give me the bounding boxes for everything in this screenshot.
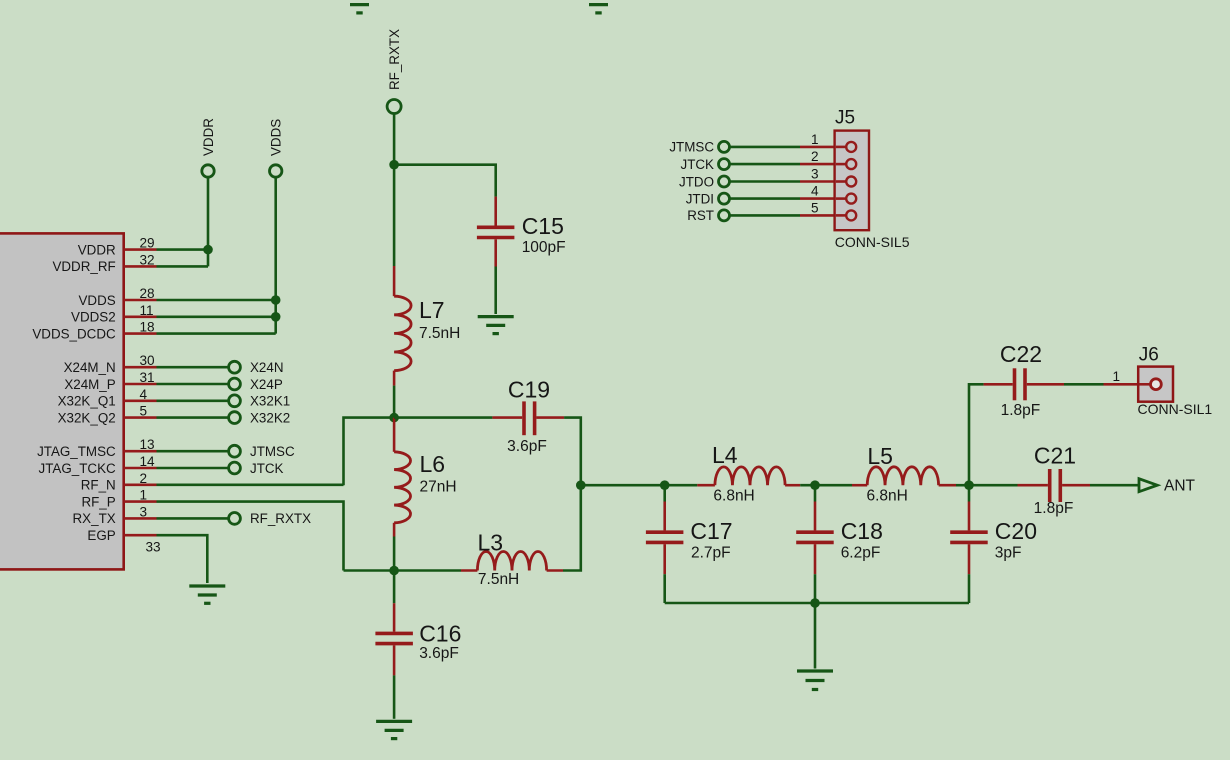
svg-text:3.6pF: 3.6pF (419, 645, 459, 662)
pin X24M_N 30 (64, 353, 157, 375)
svg-text:29: 29 (140, 236, 155, 251)
svg-text:5: 5 (811, 200, 819, 215)
svg-text:VDDS2: VDDS2 (71, 310, 116, 325)
svg-text:C21: C21 (1034, 443, 1076, 469)
svg-text:RST: RST (687, 208, 714, 223)
junction VDDS pin11 (271, 312, 281, 322)
wire EGP to ground (157, 535, 208, 583)
wire filter ground rail (665, 602, 969, 605)
wire C15 to ground (494, 267, 497, 315)
ground (top right, partial) (589, 5, 608, 13)
svg-text:RF_RXTX: RF_RXTX (250, 511, 311, 526)
svg-text:X32K_Q2: X32K_Q2 (58, 410, 116, 425)
wire bottom rail left (344, 569, 395, 572)
pin JTAG_TMSC 13 (37, 437, 156, 459)
wire RF_N from pin to rail (157, 483, 344, 486)
svg-text:X32K2: X32K2 (250, 410, 290, 425)
ground filter (797, 671, 833, 690)
connector J6 body (1138, 367, 1173, 402)
svg-text:JTCK: JTCK (250, 461, 284, 476)
pin VDDS_DCDC 18 (32, 320, 156, 342)
wire L3 to right vertical (563, 485, 581, 570)
svg-text:L3: L3 (478, 530, 504, 556)
wire node A to C19 (394, 416, 492, 419)
wire L7 to node A (393, 386, 396, 418)
svg-text:X24M_P: X24M_P (64, 377, 115, 392)
terminal JTCK (157, 461, 284, 476)
connector J5 pad circles (846, 142, 856, 221)
svg-text:11: 11 (140, 303, 154, 318)
svg-text:JTMSC: JTMSC (669, 140, 714, 155)
svg-text:J5: J5 (835, 108, 855, 129)
svg-text:L7: L7 (419, 297, 445, 323)
svg-text:3: 3 (811, 167, 819, 182)
capacitor C15 (477, 197, 515, 267)
svg-text:JTMSC: JTMSC (250, 444, 295, 459)
svg-text:X24P: X24P (250, 377, 283, 392)
junction VDDS pin28 (271, 295, 281, 305)
svg-text:C20: C20 (995, 518, 1037, 544)
svg-text:3pF: 3pF (995, 545, 1022, 562)
svg-text:L5: L5 (867, 443, 893, 469)
pin X32K_Q1 4 (58, 387, 157, 409)
pin numbers J5 (811, 132, 819, 216)
svg-text:VDDR_RF: VDDR_RF (52, 259, 115, 274)
svg-text:X32K_Q1: X32K_Q1 (58, 394, 116, 409)
svg-text:3: 3 (140, 504, 148, 519)
svg-text:RF_N: RF_N (81, 478, 116, 493)
connector J6 pad circle (1151, 379, 1162, 390)
svg-text:X32K1: X32K1 (250, 394, 290, 409)
svg-text:14: 14 (140, 454, 156, 469)
junction VDDR (203, 245, 213, 255)
inductor L6 (394, 418, 410, 537)
wire node to C15 (394, 165, 496, 197)
pin VDDR 29 (78, 236, 157, 258)
svg-text:C22: C22 (1000, 341, 1042, 367)
ground EGP (189, 586, 225, 603)
wire VDDS vertical (274, 178, 277, 334)
connector J6 pin 1 (1104, 383, 1151, 386)
terminal RF_RXTX (from RX_TX pin) (157, 511, 312, 526)
svg-text:6.2pF: 6.2pF (841, 545, 881, 562)
wire node C to filter (581, 484, 698, 487)
capacitor C21 (969, 469, 1090, 502)
wire pin29 to VDDR net (157, 248, 209, 251)
svg-text:7.5nH: 7.5nH (478, 571, 519, 588)
wire VDDR vertical (207, 178, 210, 267)
pin JTAG_TCKC 14 (39, 454, 157, 476)
svg-text:EGP: EGP (87, 528, 115, 543)
terminal JTMSC (J5) (730, 146, 800, 149)
wire C16 from node B (393, 571, 396, 604)
svg-text:C16: C16 (419, 621, 461, 647)
wire node B to L3 (394, 569, 461, 572)
svg-text:L6: L6 (420, 451, 446, 477)
wire L4 to C18 node (800, 484, 852, 487)
svg-text:100pF: 100pF (522, 239, 566, 256)
svg-text:7.5nH: 7.5nH (419, 325, 460, 342)
terminal RST (J5) (730, 214, 800, 217)
IC block (cut off at left edge) (0, 233, 124, 569)
wire RF_P from pin to rail (157, 502, 344, 571)
wire C19 to right vertical (564, 418, 581, 486)
svg-text:3.6pF: 3.6pF (507, 438, 547, 455)
svg-text:JTDI: JTDI (686, 191, 714, 206)
svg-text:27nH: 27nH (420, 479, 457, 496)
svg-text:2: 2 (811, 149, 819, 164)
svg-text:4: 4 (811, 184, 819, 199)
svg-text:VDDR: VDDR (78, 242, 116, 257)
wire C16 to ground (393, 675, 396, 718)
svg-text:JTCK: JTCK (681, 157, 715, 172)
connector J5 pin stubs (800, 147, 846, 216)
wire RF node down to L7 (393, 165, 396, 266)
junction C20 node (964, 480, 974, 490)
svg-text:1: 1 (1112, 369, 1120, 384)
terminal X32K1 (157, 394, 291, 409)
inductor L4 (697, 467, 800, 485)
svg-text:28: 28 (140, 286, 155, 301)
pin X32K_Q2 5 (58, 404, 157, 426)
pin X24M_P 31 (64, 370, 156, 392)
svg-text:1: 1 (140, 488, 148, 503)
inductor L7 (394, 266, 411, 386)
terminal X24N (157, 360, 284, 375)
pin EGP 33 (87, 528, 160, 555)
pin RX_TX 3 (73, 504, 157, 526)
capacitor C20 (950, 485, 988, 603)
svg-text:RF_P: RF_P (81, 494, 115, 509)
wire pin11 to VDDS net (157, 315, 276, 318)
ground C16 (376, 721, 412, 738)
wire top rail left (344, 418, 395, 486)
svg-text:VDDS: VDDS (269, 119, 284, 156)
junction C17 node (660, 480, 670, 490)
connector J5 body (835, 131, 869, 231)
inductor L5 (852, 467, 956, 485)
wire rail to ground (814, 603, 817, 669)
terminal JTMSC (157, 444, 295, 459)
svg-text:5: 5 (140, 404, 148, 419)
svg-text:C18: C18 (841, 518, 883, 544)
svg-text:C17: C17 (690, 518, 732, 544)
svg-text:X24N: X24N (250, 360, 284, 375)
terminal JTDI (J5) (730, 197, 800, 200)
svg-text:JTDO: JTDO (679, 174, 714, 189)
power terminal VDDS (270, 165, 282, 177)
svg-text:CONN-SIL1: CONN-SIL1 (1138, 401, 1213, 417)
junction C18 node (810, 480, 820, 490)
svg-text:1: 1 (811, 132, 819, 147)
wire RF_RXTX down (393, 114, 396, 165)
inductor L3 (461, 551, 563, 570)
terminal JTDO (J5) (730, 180, 800, 183)
svg-text:C15: C15 (522, 213, 564, 239)
svg-text:1.8pF: 1.8pF (1001, 402, 1041, 419)
svg-text:VDDR: VDDR (201, 118, 216, 156)
wire L6 to node B (393, 537, 396, 571)
svg-text:RF_RXTX: RF_RXTX (387, 29, 402, 90)
svg-text:L4: L4 (712, 442, 738, 468)
ground C15 (478, 317, 514, 334)
capacitor C19 (492, 401, 564, 435)
svg-text:2: 2 (140, 471, 148, 486)
svg-text:CONN-SIL5: CONN-SIL5 (835, 234, 910, 250)
connector J5 terminals (669, 140, 800, 224)
svg-text:13: 13 (140, 437, 155, 452)
svg-text:RX_TX: RX_TX (73, 511, 116, 526)
junction ground rail (810, 598, 820, 608)
svg-text:6.8nH: 6.8nH (867, 488, 908, 505)
wire C22 to J6 (1064, 383, 1104, 386)
svg-text:6.8nH: 6.8nH (713, 488, 754, 505)
wire pin32 to VDDR net (157, 265, 209, 268)
capacitor C17 (646, 485, 684, 603)
wire pin28 to VDDS net (157, 299, 276, 302)
terminal JTCK (J5) (730, 163, 800, 166)
svg-text:4: 4 (140, 387, 148, 402)
capacitor C16 (375, 603, 413, 675)
terminal X24P (157, 377, 283, 392)
terminal RF_RXTX (top) (387, 100, 401, 114)
pin RF_P 1 (81, 488, 156, 510)
svg-text:18: 18 (140, 320, 155, 335)
svg-text:32: 32 (140, 252, 155, 267)
ground (top left, partial) (350, 5, 369, 13)
pin VDDR_RF 32 (52, 252, 156, 274)
capacitor C22 (984, 368, 1064, 400)
wire C20 node up to C22 (969, 384, 984, 485)
junction RF node top (389, 160, 399, 170)
capacitor C18 (796, 485, 834, 603)
junction node A (389, 413, 399, 423)
wire C21 to ANT (1090, 484, 1139, 487)
terminal X32K2 (157, 410, 291, 425)
svg-text:VDDS_DCDC: VDDS_DCDC (32, 326, 116, 341)
svg-text:2.7pF: 2.7pF (691, 545, 731, 562)
svg-text:JTAG_TMSC: JTAG_TMSC (37, 444, 116, 459)
svg-text:JTAG_TCKC: JTAG_TCKC (39, 461, 116, 476)
svg-text:J6: J6 (1139, 344, 1159, 365)
svg-text:C19: C19 (508, 377, 550, 403)
svg-text:ANT: ANT (1164, 478, 1196, 495)
junction node C (576, 480, 586, 490)
svg-text:X24M_N: X24M_N (64, 360, 116, 375)
svg-text:1.8pF: 1.8pF (1034, 500, 1074, 517)
wire pin18 to VDDS net (157, 332, 276, 335)
power terminal VDDR (202, 165, 214, 177)
svg-text:31: 31 (140, 370, 155, 385)
svg-text:33: 33 (146, 540, 161, 555)
svg-text:VDDS: VDDS (78, 293, 115, 308)
pin VDDS 28 (78, 286, 156, 308)
wire L5 to C20 node (956, 484, 969, 487)
pin RF_N 2 (81, 471, 157, 493)
pin VDDS2 11 (71, 303, 156, 325)
junction node B (389, 566, 399, 576)
svg-text:30: 30 (140, 353, 156, 368)
ANT output arrow (1139, 479, 1157, 492)
